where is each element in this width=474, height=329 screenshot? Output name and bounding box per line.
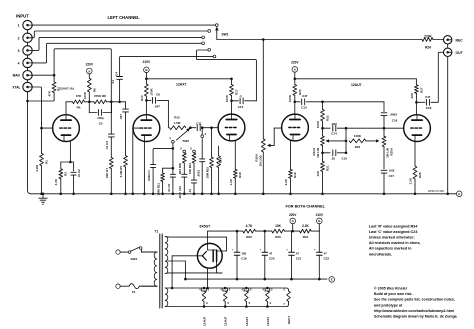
transformer HV secondary [165, 237, 169, 274]
wire R6 to node row [88, 92, 90, 102]
switch SW2 contact 1 [169, 136, 174, 143]
svg-text:10M R15: 10M R15 [206, 167, 210, 179]
resistor R18 1.2K [233, 169, 237, 195]
svg-text:C21: C21 [296, 257, 302, 261]
wire 220V rail A segment [294, 78, 417, 81]
wire bus stage1 out [120, 56, 214, 76]
wire REC-OUT tie [447, 44, 449, 48]
wire pot to R21 [321, 146, 324, 162]
svg-text:47K: 47K [48, 90, 52, 96]
text 4.7K R29 [246, 224, 253, 239]
text credits block [374, 287, 458, 319]
text F1 [132, 290, 136, 294]
text .01 C2 [77, 169, 81, 178]
tone branch 8 res R16 [217, 146, 221, 195]
capacitor C21 47uF [286, 231, 301, 280]
svg-text:2.2K: 2.2K [284, 178, 288, 185]
svg-text:R4: R4 [77, 106, 81, 110]
svg-text:All resistors marked in ohms,: All resistors marked in ohms, [369, 241, 421, 245]
text FOR BOTH CHANNEL [286, 205, 326, 209]
text .002 C17 [389, 169, 395, 178]
svg-text:.01 C3: .01 C3 [105, 141, 109, 150]
text .0002 C16 [390, 113, 398, 123]
resistor R19 2.2K [289, 169, 293, 195]
svg-text:4: 4 [18, 61, 20, 65]
svg-text:R26: R26 [418, 172, 422, 178]
tone branch 6 cap .0015 [200, 139, 205, 196]
svg-text:R27: R27 [419, 87, 423, 93]
text .002 C14 [331, 122, 337, 136]
resistor R2 47K [52, 75, 56, 92]
svg-text:15K R14: 15K R14 [188, 163, 192, 174]
heater V1 12AU7 [199, 287, 209, 308]
text R24 [425, 46, 431, 50]
wire V4 cathode [290, 141, 292, 170]
heater V4 12AX7 [263, 287, 273, 308]
svg-text:C12: C12 [238, 105, 244, 109]
wire A stub [291, 224, 294, 233]
text 1.2K R18 [229, 172, 242, 185]
svg-text:100K: 100K [150, 87, 154, 95]
wire A to R6 [88, 74, 90, 78]
svg-text:.047: .047 [425, 95, 431, 99]
wire C6 down to R12 [167, 100, 169, 127]
transformer primary winding [142, 252, 157, 286]
text 6X5GT [200, 225, 212, 229]
text .0015 C23 [197, 170, 201, 177]
resistor R6 100K [87, 78, 91, 92]
svg-text:R25A: R25A [389, 147, 393, 156]
wire HV bottom tap [169, 272, 222, 274]
wire wiper to V4 grid [274, 128, 282, 145]
wire A to R20 [294, 72, 296, 84]
text .0047 C10 [178, 186, 182, 199]
text .01 C4 [111, 72, 118, 84]
capacitor C20 47uF [260, 231, 275, 280]
capacitor C18 .047 [416, 99, 433, 105]
svg-text:E: E [331, 278, 333, 282]
svg-text:Unless marked otherwise:: Unless marked otherwise: [369, 236, 415, 240]
wire R34 to R25A wiper [366, 139, 380, 142]
heater rectifier [283, 288, 290, 307]
svg-text:F1: F1 [132, 290, 136, 294]
svg-text:SW2: SW2 [183, 139, 190, 143]
fuse F1 [129, 284, 157, 289]
svg-text:R31: R31 [303, 235, 309, 239]
capacitor C19 100uF [232, 231, 247, 280]
svg-text:R18: R18 [238, 172, 242, 178]
svg-text:C5: C5 [99, 121, 103, 125]
tone branch 5 res 15K cap [191, 153, 196, 195]
svg-text:.0015: .0015 [197, 170, 201, 177]
jack J4 input 4 [23, 58, 32, 67]
tone branch 7 res 10M [210, 128, 214, 195]
wire HV top tap [169, 236, 227, 238]
svg-text:220V: 220V [291, 61, 299, 65]
text 2.2M R1 [35, 160, 48, 172]
tube V2 triode [133, 115, 160, 142]
text heater label 12AU7 [224, 316, 228, 326]
jack J3 input 3 [23, 46, 32, 55]
svg-text:R30: R30 [275, 235, 281, 239]
wire R8 to C4 column [107, 101, 126, 104]
terminal AC neutral [116, 284, 129, 288]
svg-text:C15: C15 [342, 157, 348, 161]
svg-text:C20: C20 [269, 257, 275, 261]
svg-text:210V: 210V [143, 60, 151, 64]
svg-text:R34: R34 [355, 145, 361, 149]
svg-text:FOR BOTH CHANNEL: FOR BOTH CHANNEL [286, 205, 326, 209]
svg-text:100: 100 [241, 252, 246, 256]
switch SW1 wiper [215, 27, 218, 40]
potentiometer R25A 1M LIN [382, 128, 386, 169]
wire HV center tap [168, 261, 185, 279]
svg-text:100K: 100K [83, 91, 87, 99]
text heater label 12AX7 [245, 316, 249, 326]
text 100K R6 [83, 88, 97, 99]
heater V2 12AU7 [220, 287, 230, 308]
svg-text:.002: .002 [389, 169, 395, 173]
resistor R31 2.2K [300, 229, 312, 233]
wire bus input2 [32, 31, 208, 38]
svg-text:.002: .002 [331, 122, 337, 126]
switch SW1 contact 3 [202, 36, 205, 39]
svg-text:SW3: SW3 [131, 257, 138, 261]
switch SW1 contact 4 [202, 42, 205, 45]
svg-text:.0002: .0002 [390, 113, 398, 117]
wire link to grid line [346, 127, 404, 130]
wire R17 to plate [230, 95, 233, 114]
wire 210V rail B segment [146, 78, 231, 80]
svg-text:100K: 100K [354, 134, 362, 138]
svg-text:2: 2 [18, 36, 20, 40]
wire B stub [318, 224, 320, 231]
text .02 C15 [331, 157, 347, 161]
wire rect cathode to heater [171, 256, 198, 290]
wire V2 grid return [132, 128, 135, 195]
divider column 22K R7 [108, 102, 114, 195]
text 22K R27 [410, 87, 423, 98]
text C6 [156, 93, 160, 97]
capacitor C11 [190, 125, 218, 131]
svg-text:1.2K: 1.2K [229, 178, 233, 185]
svg-text:100K: 100K [225, 94, 229, 102]
text .047 C13 [301, 94, 308, 110]
jack J6 XTAL [23, 82, 32, 91]
tube V3 triode [218, 114, 245, 141]
wire heater bus top [171, 287, 286, 289]
wire V2 grid [133, 127, 140, 129]
switch SW2 contact 2 [180, 147, 185, 153]
wire rect heater drop [206, 268, 209, 289]
node B ps [317, 218, 323, 224]
text SW1 [222, 33, 229, 37]
wire R2 bottom to jack chain [26, 93, 54, 103]
node A left 220V [87, 68, 93, 74]
capacitor C15 .02 [323, 150, 348, 156]
svg-text:.02: .02 [331, 157, 336, 161]
switch SW1 contact 5 [208, 48, 211, 51]
svg-text:R22: R22 [326, 115, 330, 121]
wire R24 to REC [433, 39, 443, 41]
svg-text:See the complete parts list, c: See the complete parts list, constructio… [374, 298, 455, 302]
ground symbol [39, 193, 47, 205]
svg-text:R3: R3 [64, 172, 68, 176]
svg-text:© 2005 Wes Kinsler: © 2005 Wes Kinsler [374, 287, 408, 291]
wire R27 to plate [415, 93, 418, 115]
svg-text:R17: R17 [235, 89, 239, 95]
svg-text:270K R8: 270K R8 [94, 94, 106, 98]
svg-text:100K: 100K [316, 120, 320, 128]
svg-text:C13: C13 [301, 106, 307, 110]
resistor R10 100K [145, 84, 149, 96]
svg-text:C17: C17 [389, 174, 395, 178]
svg-text:12AX7: 12AX7 [176, 83, 186, 87]
text C11 [196, 121, 202, 125]
svg-text:12AU7 (A): 12AU7 (A) [60, 87, 74, 91]
node A ps [290, 218, 296, 224]
text 100K R22 [316, 115, 330, 128]
svg-text:47: 47 [296, 252, 300, 256]
text INPUT [16, 13, 29, 18]
wire bus input3 [32, 37, 202, 50]
wire jack ground chain [28, 30, 32, 194]
text 100p C5 [97, 116, 104, 125]
text LEFT CHANNEL [108, 15, 141, 20]
text 220V ps [289, 213, 297, 217]
resistor R26 2.2K [413, 166, 417, 195]
text R16 [219, 157, 223, 163]
resistor R30 10K [272, 229, 285, 233]
text R12 1.5M [174, 116, 181, 126]
capacitor C13 .047 [295, 99, 384, 105]
text 3.3M R5 [119, 166, 123, 178]
jack OUT [444, 48, 452, 56]
text 10M R15 [206, 167, 210, 179]
wire vertical to volume pot [262, 40, 264, 134]
switch SW1 contact 1 [215, 24, 218, 27]
svg-text:10K: 10K [275, 224, 282, 228]
wire V1 plate up [65, 102, 67, 115]
tone branch 4 res 30K cap .0047 [182, 153, 187, 195]
text 150K R11 [156, 183, 160, 196]
text 220K [424, 34, 432, 38]
text .047 C1 [119, 114, 123, 120]
rectifier tube 6X5GT [197, 243, 222, 268]
svg-text:3: 3 [18, 49, 20, 53]
node R12 out [189, 126, 192, 129]
wire plate2 top tap [218, 237, 227, 251]
svg-text:.1: .1 [239, 94, 242, 98]
svg-text:C16: C16 [392, 118, 398, 122]
text 100K R20 [288, 89, 302, 102]
text R23A 1M LIN [312, 147, 320, 158]
potentiometer R23A 1M LIN [321, 136, 348, 146]
svg-text:LEFT CHANNEL: LEFT CHANNEL [108, 15, 141, 20]
text .01 C8 [167, 184, 171, 193]
text 220V stage4 [291, 61, 299, 65]
text heater label 12AX7 [266, 316, 270, 326]
svg-text:HPW-05 900: HPW-05 900 [428, 189, 444, 193]
capacitor C16 .0002 feedback [381, 102, 387, 128]
svg-text:150K R11: 150K R11 [156, 183, 160, 196]
tube V4 triode [282, 114, 309, 141]
svg-text:Schematic diagram drawn by Mar: Schematic diagram drawn by Mario E. de Z… [374, 315, 458, 319]
svg-text:RECT: RECT [287, 316, 291, 324]
text 270K R8 [94, 94, 106, 98]
wire SW1 output to R24/REC [217, 39, 422, 41]
svg-text:C11: C11 [196, 121, 202, 125]
text part number [428, 189, 444, 193]
resistor R12 1.5M [169, 126, 185, 130]
wire XTAL to grid column [32, 87, 43, 153]
capacitor C14 .002 [323, 125, 348, 131]
svg-text:4.7K: 4.7K [246, 224, 253, 228]
svg-text:C6: C6 [156, 93, 160, 97]
node E right [448, 191, 462, 197]
svg-text:XTAL: XTAL [12, 86, 20, 90]
switch SW2 contact 4 [201, 128, 207, 138]
wire V5 cathode [414, 141, 416, 166]
svg-text:C19: C19 [241, 257, 247, 261]
svg-text:12AX7: 12AX7 [245, 316, 249, 326]
svg-text:INPUT: INPUT [16, 13, 29, 18]
svg-text:220V: 220V [289, 213, 297, 217]
svg-text:SW1: SW1 [222, 33, 229, 37]
svg-text:T1: T1 [155, 230, 159, 234]
capacitor C17 .002 [381, 170, 387, 195]
text 100K R34 [354, 134, 362, 149]
svg-text:12AU7: 12AU7 [224, 316, 228, 326]
svg-text:22K R7: 22K R7 [105, 168, 109, 179]
wire plate bottom tap [217, 262, 222, 273]
svg-text:Last 'C' value assigned:C23: Last 'C' value assigned:C23 [369, 230, 417, 234]
heater V3 12AX7 [242, 287, 252, 308]
wire B down [145, 73, 148, 84]
jack J5 MAG [23, 71, 32, 80]
switch SW3 [128, 247, 157, 254]
text R16A 1M LOG [255, 153, 263, 166]
svg-text:R10: R10 [140, 95, 144, 101]
text 12AU7 [351, 83, 362, 87]
text 10K R21 [316, 165, 330, 176]
svg-text:2.2K: 2.2K [302, 224, 309, 228]
svg-text:1M LIN: 1M LIN [316, 148, 320, 158]
svg-text:and prototype at: and prototype at [374, 303, 403, 307]
svg-text:R1: R1 [44, 160, 48, 164]
svg-text:.01: .01 [111, 80, 115, 85]
capacitor C4 .01 coupling [117, 77, 123, 102]
jack J1 input 1 [23, 20, 32, 29]
svg-text:1.5M: 1.5M [174, 121, 181, 125]
resistor R22 100K [321, 109, 325, 121]
svg-text:All capacitors marked in: All capacitors marked in [369, 247, 412, 251]
text 12AU7 (A) [60, 87, 74, 91]
svg-text:22K: 22K [410, 92, 414, 98]
node switch-out to volume [262, 38, 265, 41]
svg-text:Build at your own risk.: Build at your own risk. [374, 292, 413, 296]
switch SW1 contact 2 [208, 30, 211, 33]
text heater label 12AU7 [203, 316, 207, 326]
tone branch 2 res 150K [161, 167, 175, 195]
tube V1 triode A [53, 115, 80, 142]
terminal AC hot [116, 250, 128, 254]
switch SW2 wiper [177, 128, 191, 140]
text R10 100K [140, 87, 154, 101]
potentiometer R16A 1M LOG [261, 133, 274, 195]
transformer T1 core [160, 234, 162, 308]
text SW3 [131, 257, 138, 261]
svg-text:.047: .047 [119, 114, 123, 120]
text 210V [143, 60, 151, 64]
text 1M LIN R25A [385, 147, 393, 158]
capacitor C5 100p [89, 102, 111, 116]
jack J2 input 2 [23, 33, 32, 42]
node E ps [329, 277, 335, 283]
wire R20 to plate [294, 95, 297, 114]
text .0039 C7 [147, 170, 151, 182]
svg-text:OUT: OUT [456, 51, 464, 55]
switch SW2 contact 3 [190, 147, 195, 153]
text 22K R7 [105, 168, 109, 179]
wire grid line V1 [42, 127, 54, 129]
text 47K R2 [48, 87, 61, 97]
resistor R1 2.2M [40, 153, 44, 166]
wire C13 to R22 [322, 102, 324, 110]
text R13 30K [178, 163, 182, 174]
text T1 [155, 230, 159, 234]
text 2.2K R26 [409, 172, 422, 184]
jack REC [444, 36, 452, 44]
wire OUT down to rail [447, 57, 449, 194]
capacitor C12 .1 [232, 98, 257, 104]
text 2.2K R31 [302, 224, 309, 239]
wire B+ filter line [208, 230, 320, 233]
node B 210V [144, 67, 150, 73]
wire OUT ring to C18 [434, 52, 444, 102]
wire plate node row [66, 101, 94, 104]
text 100K R17 [225, 89, 239, 102]
capacitor C6 .047 [146, 98, 168, 104]
svg-text:1M LOG: 1M LOG [259, 154, 263, 166]
text 220V left [86, 63, 94, 67]
svg-text:12AU7: 12AU7 [351, 83, 362, 87]
text jack numbers [12, 24, 20, 90]
text notes block [369, 224, 421, 256]
svg-text:R24: R24 [425, 46, 431, 50]
text 10K R30 [275, 224, 282, 239]
svg-text:10K: 10K [316, 170, 320, 176]
text heater label REKT [287, 316, 291, 324]
svg-text:Last 'R' value assigned:R34: Last 'R' value assigned:R34 [369, 224, 418, 228]
wire main ground rail [31, 193, 448, 195]
svg-text:R29: R29 [246, 235, 252, 239]
text 47K R4 [76, 94, 82, 109]
svg-text:.047: .047 [154, 104, 160, 108]
wire R22 to pot [321, 121, 324, 136]
text .1 C12 [238, 94, 244, 109]
wire R10 to plate V2 [145, 96, 148, 115]
resistor R8 270K [94, 100, 107, 104]
divider column 3.3M R5 [123, 102, 129, 195]
capacitor C22 47uF [314, 231, 329, 280]
text 210V ps [316, 213, 324, 217]
svg-text:MAG: MAG [13, 74, 21, 78]
wire V2 cathode [143, 141, 146, 195]
svg-text:C22: C22 [324, 257, 330, 261]
tube V5 triode [404, 115, 431, 142]
transformer heater winding [165, 288, 171, 307]
